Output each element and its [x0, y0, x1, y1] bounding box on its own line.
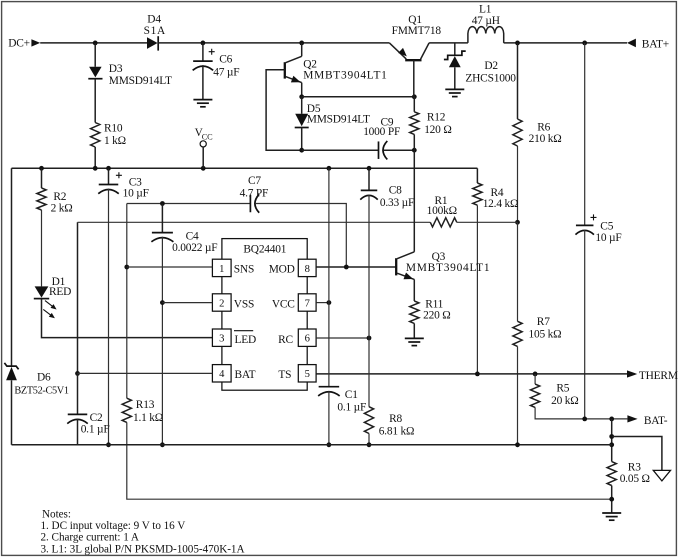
capacitor C4	[151, 204, 173, 242]
ground (D2)	[445, 89, 464, 96]
node: R6 tap	[515, 41, 520, 46]
pin label VSS	[234, 298, 254, 310]
wire C7 net right	[255, 204, 346, 268]
svg-text:0.1 µF: 0.1 µF	[81, 423, 110, 435]
svg-text:Notes:: Notes:	[42, 508, 71, 520]
svg-text:0.0022 µF: 0.0022 µF	[172, 242, 217, 254]
node: R12 bottom junction	[412, 148, 417, 153]
wire C1 to Vss rail	[328, 391, 330, 445]
svg-text:8: 8	[305, 264, 310, 275]
svg-text:ZHCS1000: ZHCS1000	[465, 72, 516, 84]
node: C1 column tap	[327, 166, 332, 171]
capacitor C3	[98, 168, 122, 193]
label R7	[529, 316, 562, 341]
svg-text:C1: C1	[345, 389, 358, 401]
label C6	[213, 53, 239, 78]
capacitor C9	[379, 141, 388, 160]
wire SNS column	[126, 204, 128, 399]
svg-text:THERM: THERM	[639, 370, 678, 382]
svg-text:R3: R3	[628, 462, 641, 474]
label D1	[49, 276, 71, 298]
label D6	[14, 371, 68, 396]
pin label SNS	[234, 264, 254, 276]
svg-text:120 Ω: 120 Ω	[424, 124, 451, 136]
svg-text:RC: RC	[278, 334, 293, 346]
svg-text:47 µH: 47 µH	[472, 15, 500, 27]
wire chassis branch	[612, 437, 662, 471]
wire C4 to VSS pin	[161, 237, 163, 445]
node: sense ground junction	[609, 497, 614, 502]
diode D3	[88, 43, 102, 123]
svg-text:1000 PF: 1000 PF	[363, 126, 400, 138]
svg-text:3. L1: 3L global P/N PKSMD-100: 3. L1: 3L global P/N PKSMD-1005-470K-1A	[41, 543, 245, 555]
led D1	[34, 286, 57, 318]
node: R3 to BAT- junction	[609, 417, 614, 422]
transistor Q1	[389, 43, 429, 97]
svg-text:47 µF: 47 µF	[213, 66, 239, 78]
node: pin7 junction	[327, 300, 332, 305]
resistor R10	[91, 123, 100, 147]
svg-text:C7: C7	[248, 175, 261, 187]
node: D3 tap on DC rail	[93, 41, 98, 46]
node: Vss rail end junction	[609, 442, 614, 447]
svg-text:10 µF: 10 µF	[595, 232, 621, 244]
svg-text:6.81 kΩ: 6.81 kΩ	[379, 426, 415, 438]
wire pin7 VCC	[316, 302, 329, 304]
label C3	[123, 176, 149, 199]
node: C4 ground	[160, 442, 165, 447]
label R4	[483, 187, 519, 210]
terminal THERM	[627, 370, 678, 382]
wire C9 net left	[302, 149, 379, 151]
svg-text:VSS: VSS	[234, 298, 254, 310]
svg-text:VCC: VCC	[272, 298, 295, 310]
node: Q2 emitter junction	[299, 94, 304, 99]
wire R8 to Vss rail	[368, 434, 370, 445]
wire top rail seg2	[158, 42, 389, 44]
svg-text:Q1: Q1	[408, 14, 422, 26]
node: Q1 base junction	[412, 94, 417, 99]
label Q1	[392, 14, 442, 37]
label D3	[109, 63, 172, 87]
svg-text:SNS: SNS	[234, 264, 254, 276]
node: Q2 collector tap	[299, 41, 304, 46]
svg-text:R13: R13	[136, 399, 155, 411]
svg-text:R12: R12	[427, 112, 446, 124]
svg-text:210 kΩ: 210 kΩ	[529, 133, 562, 145]
pin label TS	[278, 369, 291, 381]
node: C6 tap	[201, 41, 206, 46]
wire pin1 SNS	[127, 266, 213, 268]
svg-text:D2: D2	[484, 60, 498, 72]
svg-text:MMSD914LT: MMSD914LT	[307, 113, 370, 125]
resistor R3	[607, 462, 616, 486]
svg-text:C4: C4	[186, 231, 199, 243]
svg-text:CC: CC	[202, 132, 213, 141]
node: C4 tap	[160, 201, 165, 206]
svg-text:RED: RED	[49, 286, 71, 298]
capacitor C6	[193, 43, 215, 70]
node: D5 cathode junction	[299, 148, 304, 153]
node: C8 tap	[367, 166, 372, 171]
wire C7 net left	[127, 203, 251, 205]
wire C3 to Vss rail	[108, 189, 110, 445]
label D5	[307, 103, 370, 125]
svg-text:MMBT3904LT1: MMBT3904LT1	[406, 262, 490, 274]
terminal Vcc	[195, 127, 214, 168]
wire pin4 BAT	[78, 372, 213, 374]
svg-text:1.1 kΩ: 1.1 kΩ	[133, 412, 163, 424]
pin label MOD	[269, 264, 295, 276]
svg-text:220 Ω: 220 Ω	[423, 309, 450, 321]
wire C6 to ground	[202, 65, 204, 99]
ground (C6)	[193, 100, 212, 107]
wire top rail seg4	[504, 42, 627, 44]
wire Vcc rail to D6	[11, 168, 13, 366]
node: R5 to TS junction	[533, 372, 538, 377]
svg-text:6: 6	[305, 334, 310, 345]
resistor R1	[430, 218, 456, 227]
label L1	[472, 4, 500, 27]
svg-text:5: 5	[305, 369, 310, 380]
label C2	[81, 412, 110, 435]
wire R11 to ground	[413, 323, 415, 338]
node: R6R7 column ground	[515, 442, 520, 447]
terminal BAT+	[627, 38, 669, 50]
capacitor C7	[250, 194, 259, 213]
node: C7 to MOD junction	[344, 265, 349, 270]
capacitor C8	[360, 168, 378, 199]
node: RC junction	[367, 336, 372, 341]
wire Vcc rail	[12, 167, 478, 169]
svg-text:0.05 Ω: 0.05 Ω	[620, 473, 650, 485]
ground chassis (open triangle)	[653, 470, 670, 481]
terminal BAT-	[627, 415, 667, 427]
label C1	[337, 389, 366, 414]
resistor R6	[513, 43, 522, 222]
diode D2 schottky	[444, 43, 466, 90]
ground (R11)	[405, 338, 424, 345]
svg-text:BZT52-C5V1: BZT52-C5V1	[14, 386, 68, 397]
wire pin2 VSS	[162, 302, 212, 304]
wire Q2 base loop	[266, 70, 302, 150]
svg-text:R2: R2	[53, 191, 66, 203]
svg-text:1 kΩ: 1 kΩ	[104, 135, 126, 147]
transistor Q3	[396, 150, 414, 301]
svg-text:0.1 µF: 0.1 µF	[337, 402, 366, 414]
svg-text:D6: D6	[37, 371, 51, 383]
node: R2 tap	[39, 166, 44, 171]
wire top rail seg1	[40, 42, 147, 44]
svg-text:TS: TS	[278, 369, 291, 381]
label R8	[379, 413, 415, 437]
node: R1 feedback junction	[515, 220, 520, 225]
resistor R13	[122, 398, 131, 422]
svg-text:C8: C8	[389, 185, 402, 197]
node: VSS pin tap	[160, 300, 165, 305]
label BQ24401	[243, 244, 286, 256]
svg-text:R6: R6	[537, 121, 550, 133]
pin label BAT	[235, 369, 256, 381]
resistor R8	[364, 407, 373, 434]
label notes	[41, 508, 245, 555]
label C7	[240, 175, 269, 199]
wire R10 to Vcc rail	[94, 147, 96, 168]
svg-text:BAT: BAT	[235, 369, 256, 381]
wire pin5 TS therm line	[316, 373, 627, 375]
node: R4 to TS junction	[475, 372, 480, 377]
node: C3 tap	[106, 166, 111, 171]
wire BAT sense corner	[77, 222, 79, 373]
label C9	[363, 117, 400, 138]
svg-text:1. DC input voltage: 9 V to 16: 1. DC input voltage: 9 V to 16 V	[41, 520, 186, 532]
svg-text:10 µF: 10 µF	[123, 188, 149, 200]
node: chassis branch junction	[609, 434, 614, 439]
label C5	[595, 220, 621, 244]
wire C5 to BAT- line	[584, 230, 586, 419]
svg-text:MOD: MOD	[269, 264, 295, 276]
svg-text:BAT+: BAT+	[642, 38, 669, 50]
svg-text:LED: LED	[235, 334, 257, 346]
svg-text:D4: D4	[147, 14, 161, 26]
svg-text:MMBT3904LT1: MMBT3904LT1	[303, 70, 387, 82]
wire top rail seg3	[429, 42, 468, 44]
svg-text:DC+: DC+	[8, 38, 30, 50]
svg-text:7: 7	[305, 298, 310, 309]
label R10	[104, 123, 126, 147]
label C4	[172, 231, 217, 254]
label R6	[529, 121, 562, 144]
svg-text:2. Charge current: 1 A: 2. Charge current: 1 A	[41, 532, 139, 544]
capacitor C1	[318, 387, 340, 396]
svg-text:MMSD914LT: MMSD914LT	[109, 75, 172, 87]
svg-text:C3: C3	[129, 176, 142, 188]
wire R1 to divider	[457, 221, 518, 223]
wire R1 net	[78, 221, 431, 223]
node: Vcc terminal tap	[201, 166, 206, 171]
resistor R2	[37, 168, 46, 286]
inductor L1	[468, 27, 504, 43]
wire R3 to ground	[611, 486, 613, 514]
label R5	[551, 383, 578, 408]
node: C5 tap	[582, 41, 587, 46]
svg-text:BQ24401: BQ24401	[243, 244, 286, 256]
svg-text:100kΩ: 100kΩ	[427, 205, 457, 217]
svg-text:4: 4	[219, 369, 225, 380]
svg-text:2 kΩ: 2 kΩ	[51, 203, 73, 215]
pin label LED	[234, 331, 256, 346]
node: BAT pin tap	[75, 371, 80, 376]
wire pin6 RC	[316, 337, 369, 339]
wire C1 column	[328, 168, 330, 386]
node: C1 ground	[327, 442, 332, 447]
svg-text:FMMT718: FMMT718	[392, 25, 442, 37]
node: C5 to BAT- junction	[582, 417, 587, 422]
svg-text:2: 2	[219, 298, 224, 309]
svg-text:0.33 µF: 0.33 µF	[380, 197, 414, 209]
svg-text:1: 1	[219, 264, 224, 275]
wire Vss rail	[12, 444, 612, 446]
node: C3 ground	[106, 442, 111, 447]
svg-text:C6: C6	[219, 53, 232, 65]
capacitor C5	[575, 43, 596, 235]
wire pin8 MOD	[316, 266, 396, 268]
pin label VCC	[272, 298, 295, 310]
resistor R11	[410, 301, 419, 323]
label R1	[427, 195, 457, 217]
svg-text:R10: R10	[104, 123, 123, 135]
svg-text:R5: R5	[556, 383, 569, 395]
node: R10 tap	[93, 166, 98, 171]
label R2	[51, 191, 73, 215]
svg-text:BAT-: BAT-	[644, 415, 668, 427]
wire C9 net right	[383, 149, 414, 151]
terminal DC+	[8, 38, 40, 50]
IC U1 BQ24401 body	[212, 239, 316, 391]
capacitor C2	[67, 373, 88, 444]
wire D1 to LED pin	[42, 299, 213, 338]
label Q2	[303, 58, 387, 81]
label C8	[380, 185, 414, 209]
resistor R12	[410, 97, 419, 150]
resistor R5	[530, 374, 627, 419]
label D4	[144, 14, 166, 37]
wire R13 to sense ground	[127, 422, 612, 499]
svg-text:R8: R8	[389, 413, 402, 425]
svg-text:12.4 kΩ: 12.4 kΩ	[483, 198, 519, 210]
svg-text:R7: R7	[537, 316, 550, 328]
diode D5	[295, 97, 309, 150]
svg-text:4.7 PF: 4.7 PF	[240, 188, 269, 200]
pin label RC	[278, 334, 293, 346]
transistor Q2	[285, 43, 302, 97]
svg-text:L1: L1	[479, 4, 492, 16]
label R3	[620, 462, 650, 485]
svg-text:S1A: S1A	[144, 25, 166, 37]
wire Q2 emitter to Q1 base	[302, 96, 415, 98]
pin numbers 1-8	[219, 264, 310, 380]
label D2	[465, 60, 516, 85]
svg-text:C2: C2	[90, 412, 103, 424]
node: SNS pin tap	[124, 265, 129, 270]
resistor R4	[473, 168, 482, 374]
node: R8 ground	[367, 442, 372, 447]
diode D4	[147, 36, 158, 50]
wire C8 to RC	[368, 195, 370, 407]
label R11	[423, 299, 450, 322]
svg-text:D3: D3	[109, 63, 123, 75]
svg-text:20 kΩ: 20 kΩ	[551, 395, 578, 407]
ground (R3)	[602, 513, 621, 520]
svg-text:105 kΩ: 105 kΩ	[529, 329, 562, 341]
svg-text:C5: C5	[600, 220, 613, 232]
label Q3	[406, 251, 490, 274]
wire BAT- to R3	[611, 419, 613, 462]
svg-text:3: 3	[219, 334, 224, 345]
label R13	[133, 399, 163, 424]
diode D6 zener	[4, 363, 18, 445]
label R12	[424, 112, 451, 136]
resistor R7	[513, 222, 522, 444]
